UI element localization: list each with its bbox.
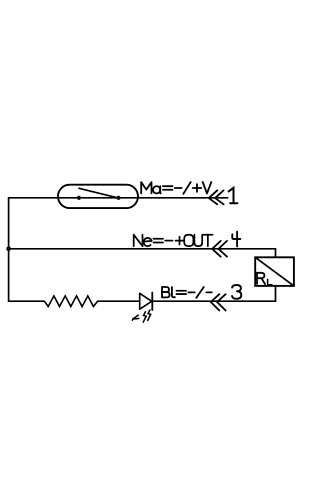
- load resistor RL box: [255, 257, 294, 286]
- LED D1 triangle anode: [140, 293, 152, 309]
- junction node left middle: [6, 247, 11, 252]
- RL label L subscript: [268, 279, 272, 285]
- LED D1 lightning stroke 1: [143, 312, 146, 322]
- reed switch left contact: [77, 196, 81, 200]
- net label Ma=-/+V: [141, 182, 151, 193]
- wire top net 1: [9, 197, 228, 199]
- wire bottom net 3: [9, 300, 276, 302]
- net label Ne=-+OUT: [133, 235, 135, 246]
- pin number 3: [232, 285, 241, 299]
- LED D1 lightning stroke 2: [148, 310, 151, 320]
- pin number 1: [229, 188, 238, 204]
- pin number 4: [232, 232, 240, 247]
- wire left vertical bus: [8, 198, 10, 301]
- wire middle net 4: [9, 248, 276, 250]
- wire right vertical upper to RL: [275, 249, 277, 258]
- net label Bl=-/-: [161, 287, 163, 297]
- LED D1 emission arrow: [132, 315, 138, 320]
- terminal arrow net 4: [212, 241, 227, 257]
- reed switch right contact: [116, 196, 120, 200]
- LED D1 cathode bar: [151, 293, 153, 311]
- RL label R: [257, 273, 265, 284]
- resistor R1 zigzag: [44, 296, 97, 307]
- wire right vertical lower from RL: [275, 285, 277, 301]
- RL box diagonal: [255, 257, 294, 286]
- terminal arrow net 1: [209, 190, 224, 204]
- terminal arrow net 3: [211, 294, 226, 310]
- reed switch blade: [79, 188, 118, 198]
- reed switch S1 envelope: [58, 185, 138, 208]
